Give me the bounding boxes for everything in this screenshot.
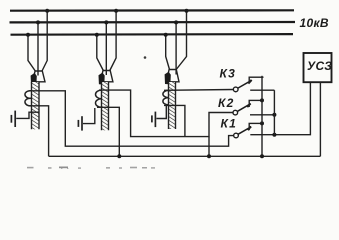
wire TA3 return lead <box>164 105 185 136</box>
contact K3 terminal circle <box>233 87 238 92</box>
caption fragment (clipped letter tops) <box>27 167 155 170</box>
contact K2 fixed stub <box>248 100 250 107</box>
wire K2 throw to node A <box>250 114 274 116</box>
wire feeder2 tap phase C <box>97 35 104 71</box>
bus L3 (10 kV busbar, phase C) <box>11 33 294 36</box>
wire K3 throw to node A <box>250 89 274 91</box>
rail node A (common throws) <box>273 90 275 135</box>
contact K2 blade <box>238 104 251 112</box>
wire node junction drop to common return <box>208 137 210 157</box>
wire TA1 top lead to K1 feed <box>29 91 233 146</box>
blob on funnel XT2 <box>99 73 105 85</box>
wire K3 fixed rail to node B <box>249 76 264 78</box>
wire TA2 top lead to K2 feed <box>99 90 233 137</box>
ground E3 connection wire <box>156 105 166 119</box>
svg-text:К1: К1 <box>221 116 237 130</box>
ground E1 electrode bars <box>14 111 16 127</box>
blob on funnel XT1 <box>31 73 37 85</box>
node feeder2 tap on L1 <box>114 9 118 13</box>
bus L2 (10 kV busbar, phase B) <box>10 21 296 24</box>
wire feeder2 tap phase B <box>105 22 107 75</box>
node feeder1 tap on L2 <box>36 20 40 24</box>
ground E2 electrode bars <box>81 116 83 130</box>
device USZ box <box>304 53 332 82</box>
cable W3 (hatched sheath) <box>169 82 175 129</box>
ground E2 connection wire <box>83 108 95 124</box>
node K2 rail junction <box>260 98 264 102</box>
wire TA2 return lead <box>97 107 119 156</box>
wire feeder1 tap phase C <box>28 35 35 71</box>
contact K1 terminal circle <box>234 133 239 138</box>
wire feeder2 tap phase A <box>110 11 116 71</box>
svg-text:10кВ: 10кВ <box>300 16 329 30</box>
node TA3 return junction <box>207 154 211 158</box>
cable W1 (hatched sheath) <box>32 82 39 129</box>
svg-text:К3: К3 <box>220 67 236 81</box>
ground E3 electrode bars <box>154 112 156 128</box>
contact K3 fixed stub <box>248 77 250 83</box>
wire K1 throw to node A and USZ left lead <box>250 82 310 135</box>
contact K1 blade <box>238 127 251 135</box>
node feeder3 tap on L3 <box>164 33 168 37</box>
cable termination funnel XT3 <box>166 70 179 82</box>
wire feeder3 tap phase C <box>166 35 170 70</box>
wire K2 fixed rail to node B <box>249 99 263 101</box>
wire feeder3 tap phase A <box>176 11 186 70</box>
wire USZ right lead to common return <box>319 82 321 156</box>
CT TA2 (zero-sequence transformer winding) <box>96 90 102 107</box>
node feeder3 tap on L1 <box>185 9 189 13</box>
cable termination funnel XT2 <box>100 71 113 82</box>
node K1 throw junction on rail A <box>272 133 276 137</box>
bus L1 (10 kV busbar, phase A) <box>10 9 294 12</box>
node feeder1 tap on L3 <box>26 33 30 37</box>
node TA2 return junction <box>117 154 121 158</box>
contact K3 blade <box>238 80 252 88</box>
wire K1 fixed rail to node B <box>249 122 263 124</box>
node feeder1 tap on L1 <box>45 9 49 13</box>
CT TA3 (zero-sequence transformer winding) <box>163 90 169 104</box>
wire feeder1 tap phase A <box>42 11 47 71</box>
svg-text:УСЗ: УСЗ <box>307 59 332 73</box>
wire feeder1 tap phase B <box>37 22 39 75</box>
cable termination funnel XT1 <box>32 71 45 82</box>
ground E1 connection wire <box>16 112 39 118</box>
node feeder2 tap on L2 <box>104 20 108 24</box>
node K2 throw junction on rail A <box>272 113 276 117</box>
contact K1 fixed stub <box>248 123 250 130</box>
CT TA1 (zero-sequence transformer winding) <box>25 91 31 106</box>
wire TA3 top lead to K3 feed <box>164 89 233 92</box>
wire feeder3 tap phase B <box>175 22 177 74</box>
cable W2 (hatched sheath) <box>102 82 108 130</box>
rail node B (common fixed contacts) <box>261 76 263 157</box>
contact K2 terminal circle <box>233 110 238 115</box>
node K1 rail junction <box>260 121 264 125</box>
blob on funnel XT3 <box>165 72 171 85</box>
node rail B junction on return bus <box>260 154 264 158</box>
node feeder3 tap on L2 <box>174 20 178 24</box>
node feeder2 tap on L3 <box>95 33 99 37</box>
wire common return bus (bottom) <box>49 155 321 157</box>
stray dot <box>144 56 147 59</box>
svg-text:К2: К2 <box>218 96 234 110</box>
wire TA1 return lead <box>29 106 49 157</box>
